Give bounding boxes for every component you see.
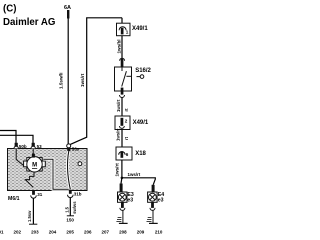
fuse 6A bar [67,10,69,19]
switch actuator symbol -o [137,75,144,79]
wire X18 to junction [121,160,123,178]
terminal 50b [14,143,27,149]
wire X49/1 to S16/2 [121,36,123,59]
svg-text:e3: e3 [127,198,133,204]
ground below E3 [116,202,127,223]
wire motor to terminal 31b [43,159,69,189]
wire S16/2 to X49/1 pin 2 [121,98,123,119]
svg-text:(C): (C) [3,4,16,15]
terminal 53 [31,143,42,149]
svg-text:53x: 53x [72,147,80,152]
svg-text:208: 208 [119,229,127,234]
wire end tick 31 [29,223,37,225]
wire from left edge to 53 [0,135,33,143]
terminal 31b [68,190,82,198]
wire from left edge to 50b [0,131,16,144]
thermal element [25,172,34,187]
wire fuse to terminal 53x [67,19,69,145]
svg-text:1: 1 [126,30,129,35]
svg-text:50b: 50b [19,144,27,149]
svg-text:6: 6 [126,152,129,157]
motor M6/1 [24,154,46,172]
svg-text:1ws/rt: 1ws/rt [116,128,121,141]
wire 31 down [32,198,34,224]
wire end tick 31b [67,215,74,217]
svg-text:207: 207 [102,229,110,234]
contact o [78,162,82,166]
svg-text:X49/1: X49/1 [133,120,149,126]
wire branch to E4 [122,178,155,185]
svg-text:rt: rt [124,136,129,140]
svg-text:1ws/rt: 1ws/rt [128,172,141,177]
svg-text:1.5sw/li: 1.5sw/li [59,73,64,89]
svg-text:1ws/bl: 1ws/bl [117,39,122,53]
svg-text:53: 53 [37,144,43,149]
svg-text:204: 204 [49,229,57,234]
svg-text:M6/1: M6/1 [8,196,20,202]
wire 50b to motor [16,149,23,166]
svg-text:Daimler AG: Daimler AG [3,17,55,28]
motor unit box M6/1 [8,149,88,191]
node junction [121,177,124,180]
svg-text:203: 203 [31,229,39,234]
lamp E3 [118,178,128,203]
svg-text:31: 31 [37,192,43,197]
svg-text:S16/2: S16/2 [135,68,151,74]
svg-text:1.5: 1.5 [65,206,70,212]
svg-text:205: 205 [66,229,74,234]
svg-text:201: 201 [0,229,4,234]
connector X18 pin 6 [116,147,132,160]
svg-text:e3: e3 [158,198,164,204]
wire 31b down [69,198,71,216]
svg-text:M: M [32,163,37,169]
switch S16/2 [115,58,132,97]
svg-text:1ws/rt: 1ws/rt [115,163,120,177]
svg-text:202: 202 [14,229,22,234]
svg-text:X18: X18 [135,151,146,157]
switch blade in motor box [68,151,71,189]
terminal 31 [31,190,43,198]
svg-text:X49/1: X49/1 [132,26,148,32]
svg-text:206: 206 [84,229,92,234]
wire top horizontal to X49/1 [70,18,122,145]
svg-text:1ws/rt: 1ws/rt [116,99,121,112]
lamp E4 [148,185,158,203]
svg-text:31b: 31b [74,191,82,196]
svg-text:150: 150 [66,218,74,223]
wire X49/1 to X18 [121,130,123,149]
svg-text:rt: rt [124,108,129,112]
svg-text:sw/ws: sw/ws [72,201,77,214]
svg-text:209: 209 [137,229,145,234]
connector X49/1 pin 2 [115,116,130,130]
svg-text:210: 210 [155,229,163,234]
terminal 53x [67,144,80,152]
ground below E4 [147,202,158,223]
connector X49/1 pin 1 [117,18,131,36]
svg-text:1ws/rt: 1ws/rt [80,73,85,87]
svg-text:1.5sw: 1.5sw [27,210,32,222]
svg-text:2: 2 [125,118,128,123]
wire 53 to motor [32,149,34,157]
